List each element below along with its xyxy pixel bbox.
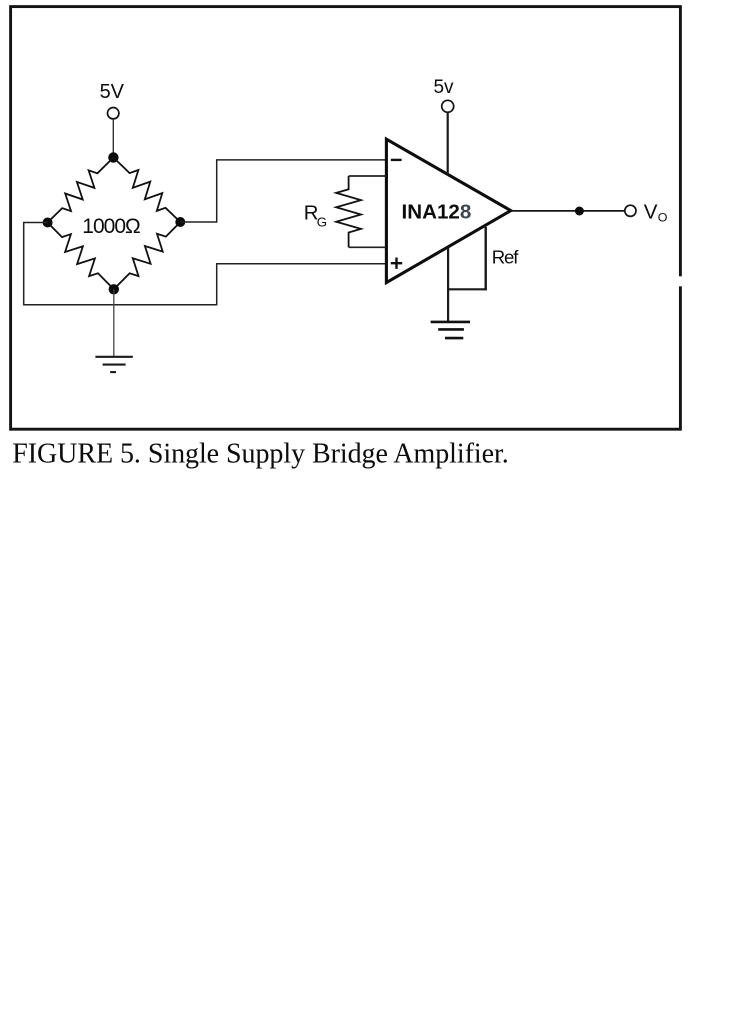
border frame bbox=[11, 7, 681, 430]
pin label minus input bbox=[391, 159, 402, 161]
wire ground stem from op-amp bottom edge bbox=[447, 248, 449, 322]
svg-text:V: V bbox=[644, 201, 658, 224]
wire output bbox=[511, 210, 625, 212]
svg-text:FIGURE 5. Single Supply Bridge: FIGURE 5. Single Supply Bridge Amplifier… bbox=[12, 438, 509, 469]
ground (bridge) bbox=[95, 357, 132, 372]
wire 5V terminal to bridge top node bbox=[112, 119, 114, 157]
wire bridge bottom node to ground bbox=[113, 289, 115, 357]
svg-text:Ref: Ref bbox=[492, 246, 519, 267]
wire Ref to ground stem (horizontal) bbox=[447, 288, 487, 290]
resistor R2 top-right (1000 ohm) bbox=[113, 158, 180, 223]
svg-text:G: G bbox=[317, 214, 327, 229]
node left (junction dot) bbox=[43, 218, 53, 228]
wire right node to -IN (right, up, right) bbox=[180, 160, 386, 222]
junction dot on output bbox=[575, 207, 584, 216]
ground (op-amp) bbox=[431, 322, 470, 338]
resistor R1 top-left (1000 ohm) bbox=[48, 158, 114, 223]
terminal 5V (open circle) bbox=[108, 108, 119, 119]
resistor R3 bottom-left (1000 ohm) bbox=[48, 223, 114, 290]
node bottom (junction dot) bbox=[109, 284, 119, 294]
wire Ref pin down from bottom edge bbox=[485, 227, 487, 290]
terminal 5v (open circle) bbox=[442, 100, 454, 112]
svg-text:1000Ω: 1000Ω bbox=[82, 215, 141, 238]
resistor R4 bottom-right (1000 ohm) bbox=[114, 222, 181, 289]
svg-text:5V: 5V bbox=[100, 81, 125, 103]
wire RG top bracket to pin bbox=[349, 175, 386, 177]
resistor RG (gain set) bbox=[336, 176, 361, 247]
terminal VO (open circle) bbox=[625, 205, 636, 216]
wire 5v terminal to op-amp top edge bbox=[447, 113, 449, 176]
wire RG bottom bracket to pin bbox=[349, 246, 386, 248]
node top (junction dot) bbox=[108, 152, 118, 162]
svg-text:5v: 5v bbox=[433, 77, 454, 98]
white gap artifact over right border bbox=[675, 276, 687, 286]
svg-text:INA128: INA128 bbox=[402, 201, 472, 224]
wire left node to +IN (left, down, right, up, right) bbox=[24, 223, 386, 305]
pin label plus input bbox=[391, 258, 402, 269]
node right (junction dot) bbox=[175, 217, 185, 227]
op-amp U1 INA128 triangle bbox=[386, 139, 510, 282]
svg-text:O: O bbox=[658, 211, 668, 225]
